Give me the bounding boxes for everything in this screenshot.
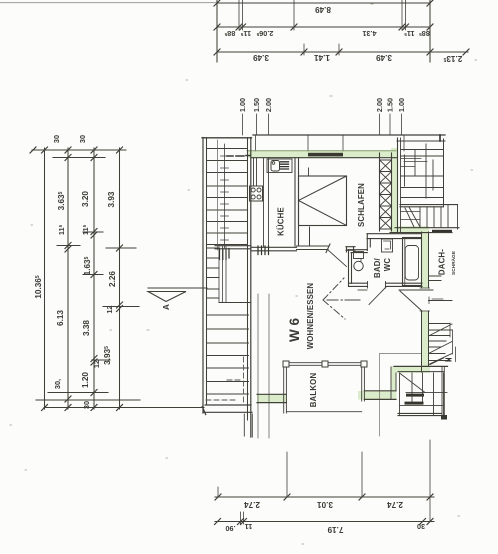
svg-text:2.74: 2.74 (244, 500, 260, 509)
chimney column left rail (379, 153, 381, 231)
stair flight inner boundary line (217, 140, 219, 250)
svg-text:11: 11 (245, 522, 253, 531)
entrance wall V2 right edge upper (428, 232, 430, 288)
balcony top rail right (328, 363, 361, 366)
green band C under upper stair (390, 226, 429, 233)
band B top edge (394, 365, 448, 367)
bathtub outer (403, 238, 422, 286)
right grid block horizontals (401, 150, 444, 198)
svg-text:30: 30 (82, 401, 91, 409)
toilet connect (356, 259, 361, 262)
main top wall outer line (253, 134, 445, 136)
chimney column X cell6 (380, 218, 392, 230)
scan page top edge (0, 2, 216, 4)
right grid block left wall inner (400, 138, 402, 232)
svg-text:DACH-: DACH- (438, 249, 447, 275)
green entrance wall V2 lower (422, 311, 429, 373)
ticks dim row3 (214, 49, 469, 55)
ticks dim row2 (214, 24, 433, 30)
window dark bar top wall (308, 153, 343, 157)
left dim vertical line 3 (93, 148, 95, 409)
toilet cistern (354, 252, 364, 259)
stair left wall outer (202, 138, 204, 414)
winder treads horizontal (429, 324, 453, 361)
balcony post mid (322, 361, 328, 367)
bad wc top wall inner (367, 238, 422, 240)
bottom dim line2 ext stubs (241, 512, 244, 524)
entrance wall V2 left edge lower (421, 311, 423, 372)
toilet bowl (354, 261, 363, 270)
tick marks dim line 8.49 (214, 0, 433, 6)
green band bottom wall line (251, 157, 397, 159)
winder lowest tread diagonal (430, 358, 444, 365)
landing tick (429, 297, 443, 304)
entrance threshold line (399, 289, 433, 291)
winder small dark mark (446, 359, 451, 362)
bad wc bottom wall left piece (349, 283, 368, 286)
chimney column X cell5 (380, 206, 392, 218)
schlafen bottom wall right (346, 247, 355, 251)
svg-text:3.635: 3.635 (57, 191, 66, 210)
left dim vertical line 1 total (44, 148, 46, 409)
left dim connectors middle (57, 232, 139, 360)
lower right stair rail1 (406, 392, 447, 394)
bad wc bottom wall right piece (386, 283, 423, 286)
lower right stair rail3 double (398, 413, 442, 415)
green band top edge line (247, 150, 396, 152)
bed diagonals (299, 176, 347, 226)
svg-text:2.00: 2.00 (375, 98, 384, 112)
kitchen stove box (250, 186, 263, 201)
balcony post right (361, 361, 367, 367)
bad wc left upper wall (367, 234, 370, 251)
left dim vertical line 2 (67, 148, 69, 409)
stair landing wall (215, 246, 251, 249)
dark sill dashes on green band (227, 155, 250, 158)
svg-text:3.49: 3.49 (253, 53, 269, 62)
svg-text:SCHLAFEN: SCHLAFEN (357, 183, 366, 227)
left dim block second connector (53, 157, 105, 159)
kitchen cupboard verticals (254, 158, 257, 186)
svg-text:115: 115 (57, 224, 66, 235)
top wall second line right part (397, 140, 445, 142)
dark wall piece under green band C (432, 230, 452, 233)
svg-text:4.31: 4.31 (362, 29, 376, 38)
svg-text:1.00: 1.00 (397, 98, 406, 112)
roof height line 1.50 right (389, 114, 391, 135)
svg-text:30: 30 (417, 522, 425, 531)
vestibule wall verticals (347, 247, 354, 252)
window jambs top wall (256, 135, 405, 151)
bottom dim line 1 (215, 496, 434, 498)
schlafen-kitchen wall outer (294, 158, 296, 246)
roof slope dash near bad door (358, 289, 367, 291)
bad wc door jambs (368, 282, 386, 289)
stair stringer wall outer (247, 138, 249, 421)
right grid interior verticals (405, 144, 434, 198)
svg-text:SCHRÄGE: SCHRÄGE (450, 250, 457, 275)
svg-text:115: 115 (240, 29, 251, 38)
right grid block left wall outer (397, 138, 399, 232)
green strip right of chimney column (391, 148, 398, 232)
bad wc door leaf (369, 287, 386, 305)
stair lower flight treads (207, 315, 249, 394)
wall tick right top (439, 135, 441, 141)
chimney column X cell4 (380, 195, 392, 207)
svg-text:12: 12 (105, 305, 114, 313)
svg-text:885: 885 (419, 29, 430, 38)
roof height line 2.00 right (379, 114, 381, 135)
stair landing door hatches (220, 249, 230, 260)
roof slope dash-dot rays (323, 278, 345, 319)
svg-text:3.49: 3.49 (376, 53, 392, 62)
bottom dim ext verticals (218, 440, 430, 522)
stair mid small treads (207, 248, 220, 298)
kitchen sink faucet (272, 162, 275, 165)
bed rectangle (299, 176, 347, 226)
band A right wall edges (364, 391, 396, 400)
green band B (391, 366, 430, 373)
svg-text:2.26: 2.26 (108, 271, 117, 287)
top dim line row2 (217, 26, 430, 28)
green band A left (257, 395, 287, 403)
balcony post left (283, 361, 289, 367)
lower right stair diagonal (400, 373, 426, 393)
stair mid landing line (219, 302, 251, 304)
svg-text:12: 12 (92, 360, 101, 368)
kitchen bottom wall (251, 247, 297, 251)
bottom dim line 2 (215, 521, 434, 523)
stair upper flight treads (207, 149, 248, 245)
balcony bottom edge (286, 411, 361, 413)
right stair right post (457, 205, 459, 229)
left dim top connector end tick (30, 147, 36, 153)
bottom dim line1 ticks (215, 494, 433, 500)
top dim line row3 (217, 51, 468, 53)
green band A right (358, 391, 396, 400)
lower right corner foot (441, 415, 447, 420)
left dim block top connector line (32, 149, 126, 151)
stair bottom wall (203, 405, 252, 412)
roof edge line right horizontal (380, 353, 422, 355)
stair dashed headroom line (206, 357, 244, 403)
kitchen stove burners (251, 188, 255, 192)
roof height line 1.00 left (242, 114, 244, 135)
svg-text:1.50: 1.50 (252, 98, 261, 112)
svg-text:115: 115 (81, 224, 90, 235)
stair walk line upper (224, 144, 226, 248)
stair bottom wall left hook (202, 407, 206, 415)
right stair winder diagonals upper (405, 207, 420, 227)
svg-text:BALKON: BALKON (309, 373, 318, 408)
svg-text:1.50: 1.50 (386, 98, 395, 112)
stair mid stringer bundle (219, 246, 226, 303)
roof height line 1.50 continuation through rooms (257, 294, 259, 438)
svg-text:10.365: 10.365 (34, 275, 43, 299)
band A left wall edges (257, 394, 286, 402)
chimney column right rail (391, 153, 393, 231)
band C bottom line (390, 232, 452, 234)
kitchen sink basin (271, 161, 280, 172)
section marker A line (148, 287, 207, 289)
svg-text:3.93: 3.93 (107, 191, 116, 207)
winder fan diagonals (429, 324, 453, 365)
lower right stair rail2 (400, 405, 443, 407)
svg-text:2.065: 2.065 (256, 29, 273, 38)
band A-B green connector edges (391, 367, 396, 399)
svg-text:3.935: 3.935 (103, 346, 112, 365)
band B bottom edge (398, 371, 444, 373)
kitchen counter edge line inner (263, 158, 265, 247)
roof height line 1.50 left (256, 114, 258, 135)
svg-text:1.635: 1.635 (83, 256, 92, 275)
green entrance wall V2 upper (422, 232, 429, 288)
svg-text:3.38: 3.38 (82, 320, 91, 336)
svg-text:1.20: 1.20 (81, 372, 90, 388)
right grid short horizontals (401, 159, 427, 167)
stair top wall (202, 137, 252, 139)
left dim ticks line1 (42, 147, 48, 411)
bad wc left wall (349, 250, 352, 287)
svg-text:30: 30 (52, 135, 61, 143)
chimney column X cell3 (380, 183, 392, 195)
left dim bottom connectors (36, 393, 140, 401)
left dim ticks line3 (91, 147, 97, 411)
svg-text:W 6: W 6 (287, 318, 302, 342)
bathtub inner (405, 246, 418, 281)
schlafen-kitchen wall inner (298, 158, 300, 246)
entrance wall V2 right edge lower (428, 311, 430, 366)
svg-text:WOHNEN/ESSEN: WOHNEN/ESSEN (306, 283, 315, 350)
roof edge line right vertical (379, 354, 381, 436)
bathtub left wall line (404, 239, 406, 286)
svg-text:1.41: 1.41 (314, 53, 330, 62)
svg-text:WC: WC (383, 258, 392, 272)
balcony right rail (362, 367, 365, 401)
stair left wall inner (206, 138, 208, 406)
kitchen counter edge line outer (268, 158, 270, 247)
extension stubs row2 (239, 0, 406, 30)
svg-text:1.00: 1.00 (238, 98, 247, 112)
chimney column dividers (380, 160, 392, 229)
landing steps above winder (429, 276, 442, 281)
lower right dark bar1 (406, 394, 424, 397)
svg-text:3.01: 3.01 (317, 500, 333, 509)
winder right posts (450, 323, 456, 362)
svg-text:3.20: 3.20 (81, 191, 90, 207)
roof height line 2.00 continuation through rooms (268, 294, 270, 438)
landing line outside door (429, 300, 453, 302)
schlafen door leaf (328, 250, 347, 267)
svg-text:2.74: 2.74 (387, 500, 403, 509)
balcony left rail (284, 367, 287, 413)
schlafen door jamb tick (326, 244, 330, 253)
left dim vertical line 4 (119, 148, 121, 409)
svg-text:30: 30 (78, 135, 87, 143)
schlafen wall stub (309, 227, 311, 246)
stair stringer wall inner (250, 138, 252, 438)
right stair rails (401, 212, 421, 220)
svg-text:885: 885 (224, 29, 235, 38)
lower right stair posts (400, 373, 444, 418)
stair walk line tick crosses (221, 156, 229, 240)
left dim ticks line4 (117, 147, 123, 411)
entrance wall V2 left edge upper (421, 232, 423, 288)
right stair treads vertical (420, 205, 448, 228)
svg-text:2.00: 2.00 (264, 98, 273, 112)
schlafen bottom wall left (297, 246, 329, 250)
stair exit vertical below (244, 414, 252, 437)
washbasin inner (384, 241, 391, 249)
kitchen door sill hatches (258, 246, 269, 255)
green top wall band (247, 151, 397, 159)
lower right dark bar2 (405, 402, 424, 405)
extension stubs row3 (304, 44, 339, 55)
svg-text:A: A (161, 304, 171, 310)
balcony top rail left (289, 363, 322, 366)
top dim extension line left (216, 0, 218, 62)
svg-text:KÜCHE: KÜCHE (276, 207, 285, 236)
lower right wall double (442, 366, 444, 418)
section marker A triangle (148, 292, 186, 302)
chimney column X cell2 (380, 172, 392, 184)
bed head stub (308, 168, 310, 176)
svg-text:2.135: 2.135 (443, 54, 462, 63)
bad wc niche wall (348, 250, 367, 253)
chimney column X cell1 (380, 160, 392, 172)
right wall double mid (400, 205, 458, 207)
roof slope dash-dot horizontal ray (327, 299, 360, 301)
top dim extension line right (429, 0, 431, 62)
left dim bottom main line (44, 407, 204, 409)
washbasin box (382, 239, 393, 252)
bad wc top wall outer (367, 233, 422, 235)
GREEN_HIGHLIGHTS (247, 148, 430, 403)
right grid block right edge (443, 139, 445, 206)
kitchen drainer bars (281, 162, 289, 169)
right stair bottom rail long (395, 227, 459, 229)
entrance door leaf (400, 291, 422, 311)
svg-text:30,: 30, (53, 379, 62, 389)
svg-text:.90: .90 (225, 524, 235, 533)
kitchen sink unit box (267, 159, 292, 173)
green connector V1 (391, 367, 397, 400)
entrance door jambs (420, 288, 430, 311)
bottom dim line2 ticks (215, 519, 434, 525)
roof height line 2.00 left (268, 114, 270, 135)
svg-text:BAD/: BAD/ (373, 257, 382, 277)
top dim line 8.49 (217, 2, 430, 4)
svg-text:7.19: 7.19 (327, 525, 343, 534)
svg-text:8.49: 8.49 (315, 5, 331, 14)
roof height line 1.00 right (401, 114, 403, 135)
left dim ticks line2 (65, 147, 71, 411)
svg-text:6.13: 6.13 (56, 310, 65, 326)
